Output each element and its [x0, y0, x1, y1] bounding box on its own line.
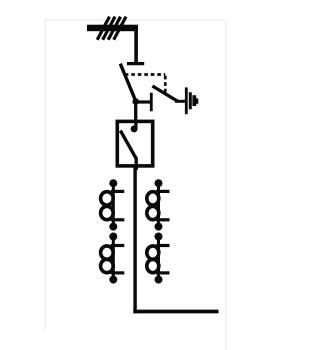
node: junction of disconnector, breaker feed and earthing branch	[132, 98, 139, 105]
wire: junction to earthing-switch fixed contact	[136, 100, 150, 103]
current transformer CT2 (left column, lower)	[101, 233, 125, 284]
wire: earthing switch to ground	[175, 100, 187, 103]
earthing switch fixed contact bar	[150, 93, 153, 112]
disconnector switch (fixed contact bar)	[127, 62, 144, 65]
wire: bottom feeder run to the right	[133, 310, 218, 314]
current transformer CT3 (right column, upper)	[147, 179, 170, 230]
disconnector switch blade	[120, 64, 135, 101]
interlock linkage (dashed)	[125, 75, 166, 95]
earthing switch blade	[152, 86, 177, 101]
current transformer CT1 (left column, upper)	[101, 179, 125, 230]
busbar W1 (hatched heavy bar)	[87, 17, 138, 40]
ground (earth electrode, rotated)	[186, 87, 197, 114]
decorative faint frame (not a component)	[45, 20, 226, 350]
wire: busbar to disconnector	[134, 27, 138, 64]
wire: circuit breaker down to feeder corner	[133, 166, 136, 313]
wire: junction down to circuit breaker	[134, 101, 137, 122]
current transformer CT4 (right column, lower)	[147, 233, 170, 284]
circuit breaker (withdrawable, in cubicle box)	[117, 121, 152, 170]
